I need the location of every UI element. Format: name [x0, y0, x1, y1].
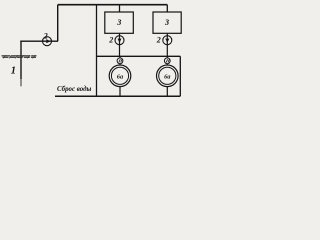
- box 3 (left): [105, 12, 134, 33]
- wire stub header to right machine: [166, 56, 168, 66]
- wire left box to header through valve: [119, 33, 121, 56]
- wire stub header to left machine: [119, 56, 121, 66]
- label 2 (right valve): [156, 36, 161, 45]
- valve 2 (left): [115, 36, 124, 45]
- motor circle (left machine): [117, 58, 123, 64]
- wire bottom discharge line: [55, 95, 180, 97]
- well pipe 1: [20, 41, 22, 87]
- wire vertical drop at x=96 (top header to bottom line): [96, 5, 98, 97]
- svg-text:1: 1: [11, 66, 16, 77]
- label discharge text: [57, 86, 92, 93]
- wire suction pipe: [20, 40, 58, 42]
- label 1: [11, 66, 16, 77]
- wire top header: [58, 4, 168, 6]
- label 2 (pump): [43, 31, 48, 40]
- svg-text:6а: 6а: [117, 73, 124, 80]
- ground water-surface hatching: [2, 55, 37, 58]
- wire left machine to bottom line: [119, 87, 121, 97]
- svg-text:3: 3: [164, 18, 169, 27]
- svg-text:6а: 6а: [164, 73, 171, 80]
- wire right frame vertical: [179, 56, 181, 96]
- svg-text:2: 2: [43, 31, 48, 40]
- motor circle (right machine): [164, 58, 170, 64]
- pump 2: [43, 37, 52, 46]
- svg-text:2: 2: [156, 36, 161, 45]
- label 2 (left valve): [108, 36, 113, 45]
- wire riser from pump to top header: [57, 5, 59, 42]
- machine 6a (left): [109, 65, 131, 87]
- box 3 (right): [153, 12, 181, 33]
- wire right machine to bottom line: [166, 87, 168, 97]
- wire top header corner down to right box 3: [166, 5, 168, 12]
- valve 2 (right): [163, 36, 172, 45]
- wire mid header: [97, 55, 181, 57]
- svg-text:Сброс воды: Сброс воды: [57, 86, 92, 93]
- wire stub top header to left box 3: [119, 5, 121, 12]
- svg-text:2: 2: [108, 36, 113, 45]
- machine 6a (right): [157, 65, 179, 87]
- wire right box to header through valve: [166, 33, 168, 56]
- svg-text:3: 3: [116, 18, 121, 27]
